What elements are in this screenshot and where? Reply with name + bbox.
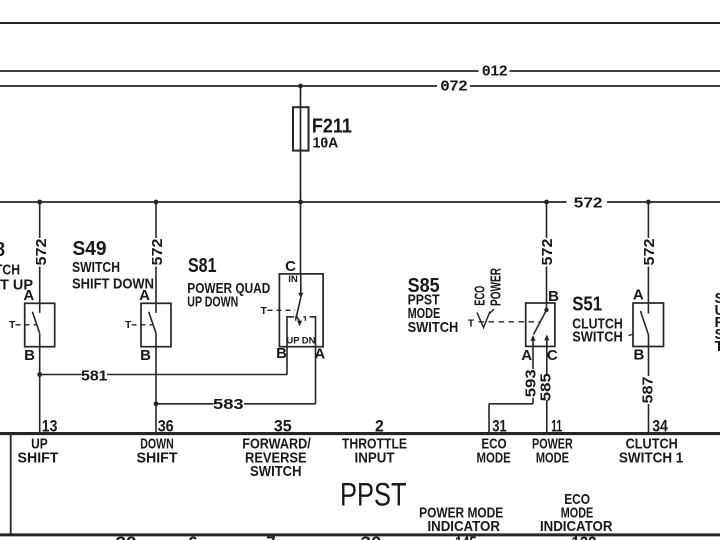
switch S48 bottom contact and wire to 581 bbox=[39, 333, 41, 374]
svg-text:SWITCH: SWITCH bbox=[408, 319, 459, 336]
svg-text:572: 572 bbox=[539, 239, 556, 266]
wire 585 lower to terminal 11 bbox=[546, 400, 548, 432]
node junction bus at fuse bbox=[298, 200, 303, 205]
S81 input wire inside box bbox=[300, 274, 302, 294]
svg-text:S51: S51 bbox=[572, 294, 602, 316]
svg-text:6: 6 bbox=[188, 533, 197, 540]
svg-text:A: A bbox=[633, 287, 644, 304]
svg-text:572: 572 bbox=[641, 239, 658, 266]
svg-text:132: 132 bbox=[572, 533, 597, 540]
svg-text:S49: S49 bbox=[73, 238, 107, 260]
wire 593 upper bbox=[532, 346, 534, 369]
wire 072 left segment bbox=[0, 85, 437, 87]
svg-text:31: 31 bbox=[492, 416, 507, 435]
svg-text:POWER: POWER bbox=[487, 268, 504, 306]
svg-text:7: 7 bbox=[266, 533, 275, 540]
wire 583 segment 1 bbox=[156, 403, 214, 405]
label wire 012 bbox=[485, 69, 487, 71]
svg-text:MODE: MODE bbox=[536, 449, 569, 466]
wire col2 drop from bus bbox=[155, 202, 157, 238]
svg-text:B: B bbox=[633, 347, 644, 364]
svg-text:T: T bbox=[261, 305, 268, 317]
svg-text:T: T bbox=[715, 338, 720, 355]
bus 572 right segment bbox=[607, 201, 720, 203]
switch S49 box bbox=[141, 303, 171, 346]
svg-text:C: C bbox=[547, 347, 558, 364]
actuator dashed line S81 bbox=[268, 309, 296, 311]
svg-text:36: 36 bbox=[158, 416, 174, 435]
S85 contact C stem bbox=[546, 340, 548, 347]
svg-text:SWITCH: SWITCH bbox=[572, 329, 623, 346]
svg-text:572: 572 bbox=[33, 239, 50, 266]
svg-text:A: A bbox=[139, 287, 150, 304]
svg-text:SWITCH 1: SWITCH 1 bbox=[619, 449, 683, 466]
svg-text:SHIFT: SHIFT bbox=[18, 449, 59, 466]
svg-text:UP DOWN: UP DOWN bbox=[187, 294, 238, 311]
node junction bus col2 bbox=[154, 200, 159, 205]
svg-text:145: 145 bbox=[455, 533, 477, 540]
switch S49 blade bbox=[149, 312, 156, 334]
S81 blade lower link bbox=[296, 317, 299, 321]
S81 input arrowhead bbox=[298, 293, 303, 299]
svg-text:T: T bbox=[468, 318, 475, 330]
switch S51 box bbox=[633, 303, 664, 347]
actuator dashed line S85 bbox=[479, 321, 540, 323]
switch S48 top contact bbox=[39, 303, 41, 313]
S51 blade bbox=[641, 311, 649, 335]
svg-text:T: T bbox=[125, 319, 132, 331]
wire 072 right segment bbox=[470, 85, 720, 87]
node junction col2 at 583 bbox=[154, 401, 159, 406]
wire col2 to terminal 36 bbox=[155, 404, 157, 432]
svg-text:SWITCH: SWITCH bbox=[250, 463, 302, 480]
svg-text:C: C bbox=[285, 258, 296, 275]
bus 572 left segment bbox=[0, 201, 567, 203]
switch S85 box bbox=[526, 303, 555, 346]
wire 585 upper bbox=[546, 346, 548, 374]
switch S49 bottom contact and wire to 583 junction bbox=[155, 333, 157, 404]
connector left edge bbox=[10, 432, 12, 536]
wire 012 right segment bbox=[510, 70, 720, 72]
wire 583 segment 2 bbox=[244, 403, 316, 405]
actuator dashed line S48 bbox=[16, 324, 38, 326]
wire 581 segment 2 bbox=[107, 374, 287, 376]
fuse F211 body bbox=[293, 107, 309, 150]
S51 bottom contact wire to 587 bbox=[648, 335, 650, 376]
svg-text:A: A bbox=[23, 287, 34, 304]
svg-text:S48: S48 bbox=[0, 239, 5, 261]
wire S85 B to box bbox=[546, 267, 548, 311]
svg-text:587: 587 bbox=[639, 377, 656, 404]
S85 contact A arrowhead bbox=[530, 335, 535, 341]
svg-text:30: 30 bbox=[361, 533, 382, 540]
svg-text:585: 585 bbox=[538, 373, 555, 401]
S81 center hook left bbox=[296, 317, 298, 321]
switch S48 blade bbox=[32, 312, 39, 334]
wire S81 A down to 583 bbox=[315, 330, 317, 404]
S85 contact A stem bbox=[532, 340, 534, 346]
wire S85 B drop from bus bbox=[546, 202, 548, 238]
svg-text:20: 20 bbox=[116, 533, 137, 540]
svg-text:572: 572 bbox=[149, 239, 166, 266]
svg-text:35: 35 bbox=[274, 416, 292, 435]
wire 012 left segment bbox=[0, 70, 479, 72]
S81 center hook right bbox=[303, 317, 305, 321]
svg-text:11: 11 bbox=[551, 416, 562, 435]
svg-text:IN: IN bbox=[288, 274, 298, 285]
connector strip bottom edge bbox=[0, 533, 720, 536]
switch S49 top contact bbox=[155, 303, 157, 313]
svg-text:PPST: PPST bbox=[340, 477, 407, 513]
svg-text:2: 2 bbox=[375, 416, 384, 435]
wire 593 drop to terminal 31 bbox=[488, 404, 490, 432]
node junction col1 at 581 bbox=[37, 372, 42, 377]
svg-text:012: 012 bbox=[482, 63, 508, 80]
actuator dashed line S49 bbox=[132, 324, 154, 326]
svg-text:B: B bbox=[276, 345, 287, 362]
selector V pointer bbox=[477, 312, 490, 328]
svg-text:581: 581 bbox=[81, 368, 108, 385]
connector strip top edge bbox=[0, 432, 720, 435]
switch S48 box bbox=[25, 303, 55, 346]
S81 blade diagonal bbox=[296, 298, 300, 317]
svg-text:072: 072 bbox=[441, 78, 468, 95]
svg-text:34: 34 bbox=[652, 416, 668, 435]
wire col1 drop from bus bbox=[39, 202, 41, 238]
S85 blade bbox=[534, 310, 547, 335]
S81 right detent bracket bbox=[310, 317, 316, 330]
wire S81 C from bus bbox=[300, 202, 302, 274]
svg-text:INPUT: INPUT bbox=[355, 449, 395, 466]
wire S51 A drop from bus bbox=[647, 202, 649, 238]
wire 581 segment 1 bbox=[40, 374, 82, 376]
svg-text:SWITCH: SWITCH bbox=[72, 259, 120, 276]
S85 pivot dot bbox=[544, 308, 548, 312]
wire col1 to terminal 13 bbox=[39, 375, 41, 433]
wire from 072 through fuse to 572 bus bbox=[300, 86, 302, 202]
svg-text:572: 572 bbox=[574, 195, 603, 212]
svg-text:MODE: MODE bbox=[477, 449, 511, 466]
node junction bus col1 bbox=[37, 200, 42, 205]
svg-text:13: 13 bbox=[42, 416, 58, 435]
wire col1 to switch bbox=[39, 267, 41, 304]
svg-text:T: T bbox=[9, 319, 16, 331]
svg-text:583: 583 bbox=[213, 396, 244, 413]
S81 blade arrowhead bbox=[297, 321, 302, 327]
S85 contact C arrowhead bbox=[544, 335, 549, 341]
wire col2 to switch bbox=[155, 267, 157, 304]
svg-text:S81: S81 bbox=[188, 255, 217, 277]
S51 actuator tick bbox=[629, 334, 635, 336]
svg-text:10A: 10A bbox=[313, 135, 339, 152]
svg-text:UP: UP bbox=[286, 335, 300, 346]
svg-text:B: B bbox=[24, 347, 35, 364]
svg-text:A: A bbox=[521, 347, 532, 364]
wire: top supply line bbox=[0, 22, 720, 24]
wire 593 lower bbox=[532, 398, 534, 404]
node junction on 072 at fuse drop bbox=[298, 84, 303, 89]
node junction bus S51 bbox=[646, 200, 651, 205]
selector tick to POWER bbox=[490, 309, 495, 314]
switch S81 box bbox=[279, 274, 323, 347]
label 10A bbox=[324, 141, 326, 143]
node junction bus S85 bbox=[544, 200, 549, 205]
wire S51 A to contact bbox=[647, 267, 649, 314]
svg-text:B: B bbox=[140, 347, 151, 364]
label wire 072 bbox=[444, 84, 446, 86]
S81 left detent bracket bbox=[287, 317, 294, 330]
wire 593 horizontal jog bbox=[489, 403, 533, 405]
wire S81 B down to 581 bbox=[286, 330, 288, 375]
svg-text:SHIFT: SHIFT bbox=[137, 449, 178, 466]
wire 587 lower to terminal 34 bbox=[648, 404, 650, 433]
svg-text:ECO: ECO bbox=[471, 286, 488, 306]
